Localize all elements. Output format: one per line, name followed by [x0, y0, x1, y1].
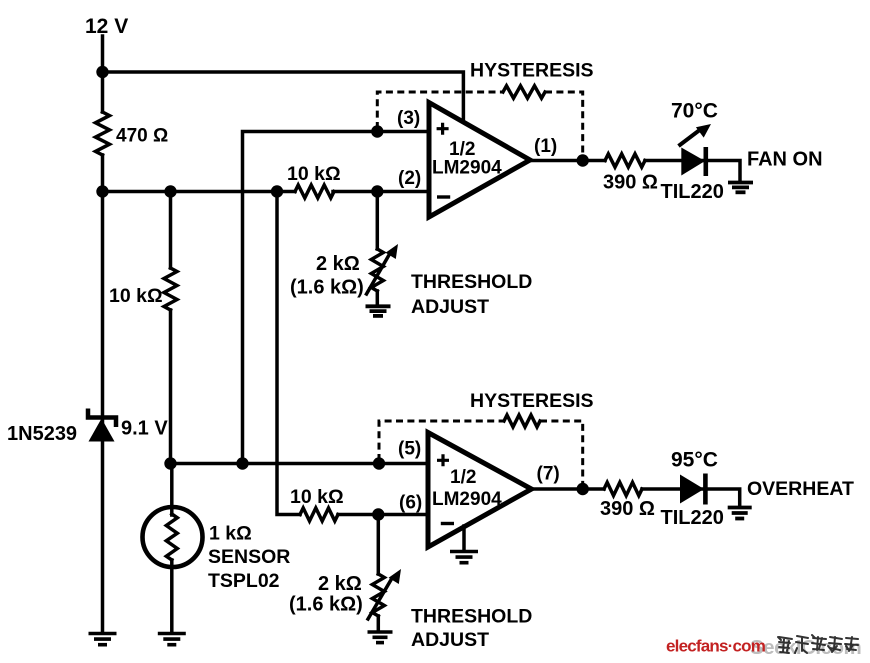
wire: RT1 bottom lead to ground	[170, 560, 174, 633]
wire: sensor node up and over to U1a non-inverting input pin 3	[243, 132, 430, 464]
label: U1a inverting - sign	[437, 195, 450, 198]
ground: U1b ground pin	[450, 550, 478, 554]
junction: sensor node / wire to pin 3	[236, 457, 248, 469]
label: U1b non-inverting + sign	[437, 454, 449, 466]
junction: pin 3 wire / hysteresis network U1a	[371, 125, 383, 137]
svg-text:SENSOR: SENSOR	[208, 546, 290, 568]
resistor R1 470ohm	[96, 112, 110, 155]
svg-text:(5): (5)	[398, 439, 421, 460]
svg-text:LM2904: LM2904	[432, 158, 502, 179]
svg-text:TIL220: TIL220	[661, 507, 724, 529]
svg-text:1 kΩ: 1 kΩ	[209, 523, 252, 545]
resistor R2 10k vertical	[164, 268, 177, 310]
op-amp U1b 1/2 LM2904 triangle	[428, 433, 532, 548]
svg-text:HYSTERESIS: HYSTERESIS	[470, 390, 594, 412]
thermistor RT1 internal resistor zigzag	[166, 514, 177, 560]
svg-text:(2): (2)	[398, 168, 421, 189]
ground: RV2 ground	[368, 630, 393, 634]
wire: U1b ground pin stem	[462, 526, 466, 551]
LED D3 cathode bar	[703, 474, 708, 505]
zener diode D1 1N5239 cathode bar	[88, 409, 116, 428]
wire: R4 to LED D2 and to ground corner	[645, 161, 740, 183]
svg-text:(7): (7)	[537, 464, 560, 485]
thermistor RT1 sensor circle	[143, 507, 203, 567]
svg-text:OVERHEAT: OVERHEAT	[747, 478, 854, 500]
ground: RV1 ground	[366, 304, 391, 308]
resistor RH2 hysteresis feedback zigzag (U1b)	[504, 415, 540, 427]
wire: RV1 bottom lead to ground	[376, 291, 380, 306]
svg-text:FAN ON: FAN ON	[747, 149, 823, 171]
wire: 12V stem down to top rail	[101, 36, 105, 112]
LED D3 TIL220 triangle	[680, 475, 704, 504]
svg-text:LM2904: LM2904	[432, 489, 502, 510]
svg-text:TSPL02: TSPL02	[208, 570, 280, 592]
potentiometer RV2 wiper arrow	[368, 579, 392, 619]
ground: left branch ground below D1	[89, 632, 117, 636]
svg-text:9.1 V: 9.1 V	[121, 418, 168, 440]
resistor R5 390ohm	[604, 482, 642, 495]
svg-text:2 kΩ: 2 kΩ	[318, 573, 362, 595]
wire: dashed hysteresis feedback left+top (U1a)	[377, 92, 503, 129]
svg-text:2 kΩ: 2 kΩ	[316, 253, 360, 275]
label: U1b inverting - sign	[441, 522, 454, 525]
resistor R3 10k horizontal to pin (2)	[295, 185, 334, 198]
svg-text:THRESHOLD: THRESHOLD	[411, 271, 532, 293]
wire: reference rail right segment after R3 to U1a pin 2	[333, 190, 429, 194]
wire: RV2 bottom lead to ground	[377, 616, 381, 632]
wire: sensor node rail to U1b non-inverting input pin 5	[171, 462, 430, 466]
junction: reference rail / R2 top	[164, 185, 176, 197]
junction: reference rail / RV1 wiper node	[371, 185, 383, 197]
svg-text:10 kΩ: 10 kΩ	[290, 486, 344, 508]
wire: R2 upper lead	[169, 192, 173, 269]
svg-text:(1.6 kΩ): (1.6 kΩ)	[290, 277, 364, 299]
svg-text:10 kΩ: 10 kΩ	[109, 285, 163, 307]
watermark: dark CJK squiggle glyphs	[778, 635, 858, 653]
svg-text:ADJUST: ADJUST	[411, 296, 489, 318]
ground: sensor ground	[158, 632, 186, 636]
wire: U1a output pin 1 to R4	[530, 159, 605, 163]
svg-text:(1.6 kΩ): (1.6 kΩ)	[289, 594, 363, 616]
junction: U1b output / hysteresis feedback	[577, 483, 589, 495]
wire: left branch from R1 through zener D1 to ground	[101, 155, 105, 633]
svg-text:1/2: 1/2	[450, 467, 476, 488]
svg-text:10 kΩ: 10 kΩ	[287, 163, 341, 185]
junction: pin 6 node / RV2	[372, 508, 384, 520]
potentiometer RV2 2k zigzag	[372, 574, 384, 616]
wire: dashed hysteresis feedback top+right (U1a)	[545, 92, 583, 158]
svg-text:SeekIC.com: SeekIC.com	[750, 636, 861, 659]
LED D2 light emission arrow	[679, 131, 700, 147]
wire: R6 to U1b pin 6	[338, 513, 428, 517]
resistor R4 390ohm	[605, 154, 645, 167]
junction: sensor node / R2 / RT1	[164, 457, 176, 469]
junction: reference rail / branch to R6	[271, 185, 283, 197]
wire: RT1 sensor top lead	[170, 464, 174, 516]
wire: reference branch down to R6 then U1b inverting input pin 6	[277, 192, 300, 515]
svg-text:390 Ω: 390 Ω	[600, 498, 655, 520]
wire: RV1 top lead from pin 2 node	[376, 192, 380, 250]
label: U1a non-inverting + sign	[437, 123, 449, 135]
junction: 9.1V reference node at R1/D1	[96, 185, 108, 197]
ground: D2 cathode ground	[728, 181, 753, 185]
svg-text:HYSTERESIS: HYSTERESIS	[470, 60, 594, 82]
junction: 12V rail / R1 node	[96, 66, 108, 78]
wire: RV2 top lead from pin 6 node	[377, 515, 381, 575]
svg-text:1N5239: 1N5239	[7, 423, 77, 445]
wire: R2 lower lead to sensor node	[169, 310, 173, 464]
svg-text:470 Ω: 470 Ω	[116, 126, 168, 147]
potentiometer RV1 2k zigzag	[371, 249, 383, 291]
svg-text:70°C: 70°C	[671, 100, 718, 123]
wire: U1b output pin 7 to R5	[532, 487, 605, 491]
wire: top rail from 12V node to U1a V+ pin	[103, 72, 464, 124]
wire: dashed hysteresis feedback left+top (U1b)	[379, 421, 504, 461]
potentiometer RV1 wiper arrow	[367, 255, 390, 294]
svg-text:THRESHOLD: THRESHOLD	[411, 606, 532, 628]
op-amp U1a 1/2 LM2904 triangle	[429, 103, 530, 218]
resistor R6 10k horizontal to pin (6)	[300, 508, 338, 521]
svg-text:12 V: 12 V	[85, 15, 128, 38]
resistor RH1 hysteresis feedback zigzag (U1a)	[503, 86, 545, 98]
svg-text:(6): (6)	[399, 493, 422, 514]
wire: dashed hysteresis feedback top+right (U1b)	[540, 421, 583, 486]
svg-text:95°C: 95°C	[671, 449, 718, 472]
ground: D3 cathode ground	[728, 506, 752, 510]
LED D2 TIL220 triangle	[681, 148, 705, 176]
svg-text:elecfans·com: elecfans·com	[666, 637, 766, 656]
LED D2 cathode bar	[703, 147, 708, 176]
junction: sensor node / hysteresis network U1b	[373, 457, 385, 469]
wire: R5 to LED D3 and to ground corner	[642, 489, 740, 507]
svg-text:ADJUST: ADJUST	[411, 629, 489, 651]
zener diode D1 1N5239 anode triangle	[89, 419, 115, 442]
svg-text:390 Ω: 390 Ω	[603, 172, 658, 194]
svg-text:TIL220: TIL220	[661, 181, 724, 203]
svg-text:(3): (3)	[397, 108, 420, 129]
junction: U1a output / hysteresis feedback	[577, 154, 589, 166]
wire: reference node rail to U1a inverting input pin 2	[103, 190, 296, 194]
svg-text:(1): (1)	[534, 136, 557, 157]
